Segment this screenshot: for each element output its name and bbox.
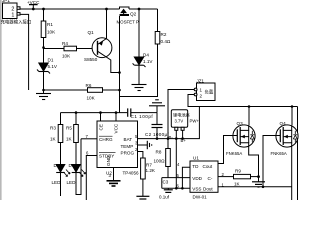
svg-text:10K: 10K [87, 96, 96, 101]
svg-text:BAT: BAT [124, 137, 133, 142]
node B- cross dot [175, 137, 178, 140]
node Q4 drain rail dot [291, 105, 294, 108]
MOSFET Q4 FNK65A [271, 107, 299, 201]
ground (R9) [252, 177, 265, 187]
svg-text:R9: R9 [235, 169, 241, 174]
svg-text:0.1uf: 0.1uf [159, 195, 170, 200]
node R1 top junction dot [42, 8, 45, 11]
node B+ dot [181, 137, 184, 140]
svg-text:JZ1: JZ1 [197, 78, 205, 83]
battery holder [169, 110, 190, 143]
svg-text:U1: U1 [193, 155, 199, 160]
svg-text:TP4056: TP4056 [123, 171, 140, 176]
svg-text:TEMP: TEMP [121, 144, 134, 149]
svg-text:Q2: Q2 [130, 12, 137, 17]
node VCC pin dot [115, 111, 118, 114]
wire C2 column [156, 113, 158, 125]
resistor R2 [120, 9, 171, 97]
wire gate-node horizontal [44, 89, 88, 91]
pin 4 TD wire [177, 162, 190, 188]
svg-text:R3: R3 [50, 126, 56, 131]
resistor R9 [234, 169, 259, 187]
svg-text:1K: 1K [66, 137, 73, 142]
wire Q4 gate [263, 136, 280, 187]
wire VSS rail [162, 187, 190, 189]
wire Q2 drain to R2 corner [129, 8, 158, 10]
svg-text:Q1: Q1 [88, 30, 95, 35]
LED D2 [52, 143, 71, 197]
wire JZ1 pin1 to R8/BAT [168, 90, 195, 149]
pin 7 CHRG wire [81, 134, 97, 139]
svg-text:1K: 1K [234, 182, 241, 187]
capacitor C1 100pf [128, 108, 157, 118]
ground (D4) [132, 85, 147, 91]
svg-text:FNK65A: FNK65A [226, 151, 242, 156]
capacitor C3 [159, 178, 173, 200]
svg-text:Dout: Dout [203, 186, 213, 191]
zener diode D1 [37, 48, 58, 91]
node R1/R4/D1 junction [42, 46, 45, 49]
svg-text:C2 1000µf: C2 1000µf [145, 132, 169, 137]
svg-text:Q3: Q3 [237, 121, 244, 126]
svg-text:Cout: Cout [203, 164, 213, 169]
svg-text:C1 100pf: C1 100pf [131, 114, 154, 119]
wire B- vertical [175, 130, 177, 188]
wire VCC mid rail [61, 112, 128, 114]
node R9/Q3 source dot [257, 175, 260, 178]
node Q1 collector / gate junction dot [118, 71, 121, 74]
svg-text:R1: R1 [47, 22, 53, 27]
wire Q3 gate [233, 135, 237, 137]
svg-text:1: 1 [11, 12, 14, 18]
svg-text:R6: R6 [86, 83, 92, 88]
wire pin1 down-left [20, 14, 29, 90]
svg-text:5.1V: 5.1V [48, 64, 58, 69]
svg-text:3.7V: 3.7V [175, 119, 184, 124]
pin 3 GND stub + ground (U2) [107, 168, 121, 187]
wire Q2 gate vertical [119, 16, 121, 113]
zener diode D4 [133, 9, 154, 85]
svg-text:C-: C- [208, 176, 213, 181]
svg-text:6: 6 [86, 151, 89, 156]
node VCC junction dot [32, 8, 35, 11]
svg-text:TD: TD [192, 164, 199, 169]
svg-text:C3: C3 [163, 180, 169, 185]
svg-text:LED: LED [67, 180, 77, 185]
resistor R3 [50, 113, 63, 143]
wire B+ stub [182, 130, 184, 138]
svg-text:R5: R5 [66, 126, 72, 131]
ground (D1) [36, 90, 51, 100]
svg-text:D4: D4 [143, 53, 149, 58]
svg-text:GND: GND [106, 155, 111, 166]
IC U1 DW-01 [190, 155, 218, 199]
svg-text:FNK65A: FNK65A [271, 151, 287, 156]
svg-text:B-: B- [169, 135, 174, 140]
pin Cout wire to Q3 gate [218, 136, 233, 164]
svg-text:D3: D3 [69, 163, 75, 168]
svg-text:D2: D2 [54, 163, 60, 168]
svg-text:锂电池座: 锂电池座 [173, 112, 190, 119]
svg-text:R4: R4 [62, 41, 68, 46]
node R6 / gate junction dot [118, 89, 121, 92]
svg-text:100Ω: 100Ω [154, 159, 166, 164]
svg-text:负载: 负载 [205, 89, 214, 96]
node C2 bottom dot [156, 137, 159, 140]
pin 3 TEMP wire + rotated ground [135, 141, 152, 150]
pin 6 STDBY wire [86, 151, 97, 200]
svg-text:充电器输入接口: 充电器输入接口 [1, 19, 32, 26]
pin 2 PROG wire [135, 147, 143, 158]
svg-text:LED: LED [52, 180, 62, 185]
resistor R4 [44, 41, 98, 59]
svg-text:CE: CE [99, 124, 104, 130]
ground (R7) [136, 196, 149, 199]
resistor R6 [86, 83, 120, 101]
svg-text:4: 4 [177, 162, 180, 167]
svg-text:1K: 1K [50, 137, 57, 142]
wire pin2 to top rail [20, 8, 120, 10]
svg-text:PROG: PROG [121, 151, 135, 156]
svg-text:7: 7 [86, 134, 89, 139]
wire VDD rail [162, 177, 190, 179]
power +VCC [27, 0, 40, 9]
node Q1 emitter junction dot [105, 8, 108, 11]
svg-text:1.1V: 1.1V [143, 59, 153, 64]
svg-text:10K: 10K [62, 54, 71, 59]
IC U2 TP4056 [97, 121, 139, 176]
svg-text:DW-01: DW-01 [193, 194, 208, 199]
LED D3 [67, 139, 86, 195]
node CE dot [99, 111, 102, 114]
svg-text:S8550: S8550 [84, 57, 98, 62]
node Q4 gate/Dout dot [262, 186, 265, 189]
svg-text:10K: 10K [47, 30, 56, 35]
svg-text:VDD: VDD [192, 176, 202, 181]
svg-text:0.4Ω: 0.4Ω [161, 39, 171, 44]
MOSFET Q2 [117, 7, 139, 25]
connector JZ1 [194, 78, 215, 100]
connector JP1 [1, 0, 32, 26]
transistor Q1 S8550 [84, 9, 120, 73]
svg-text:JP1: JP1 [2, 0, 10, 3]
svg-text:D1: D1 [48, 58, 54, 63]
svg-text:PW+: PW+ [190, 118, 200, 123]
node R5 top dot [75, 111, 78, 114]
ground (C2 top, inverted) [149, 100, 165, 113]
node B- VSS dot [175, 187, 178, 190]
svg-text:VSS: VSS [192, 186, 201, 191]
node D1/R6/pin1 junction [42, 89, 45, 92]
wire VCC pin stub [115, 113, 117, 121]
svg-text:CHRG: CHRG [99, 137, 113, 142]
pin 2 C- wire [218, 172, 234, 177]
pin 1 Dout wire to Q4 [218, 182, 292, 187]
resistor R1 [41, 9, 56, 48]
svg-text:VCC: VCC [114, 123, 119, 133]
sheet edge shading [0, 0, 2, 200]
resistor R5 [66, 113, 78, 143]
svg-text:R8: R8 [156, 150, 162, 155]
resistor R7 [141, 158, 156, 196]
svg-text:R7: R7 [146, 163, 152, 168]
wire right edge down [297, 107, 299, 201]
node Q3 drain rail dot [248, 105, 251, 108]
svg-text:B+: B+ [181, 138, 187, 143]
svg-text:1.2K: 1.2K [146, 168, 156, 173]
capacitor C2 1000uf [145, 125, 169, 139]
node TD/VSS dot [181, 187, 184, 190]
resistor R8 [154, 149, 171, 178]
wire JZ1 pin2 to rail [188, 95, 298, 107]
svg-text:Q4: Q4 [280, 121, 287, 126]
wire BAT pin5 [135, 107, 199, 139]
node D4 junction dot [138, 8, 141, 11]
node R8 top dot [167, 137, 170, 140]
MOSFET Q3 FNK65A [226, 107, 259, 177]
wire CE stub [100, 113, 102, 121]
svg-text:R2: R2 [161, 32, 167, 37]
